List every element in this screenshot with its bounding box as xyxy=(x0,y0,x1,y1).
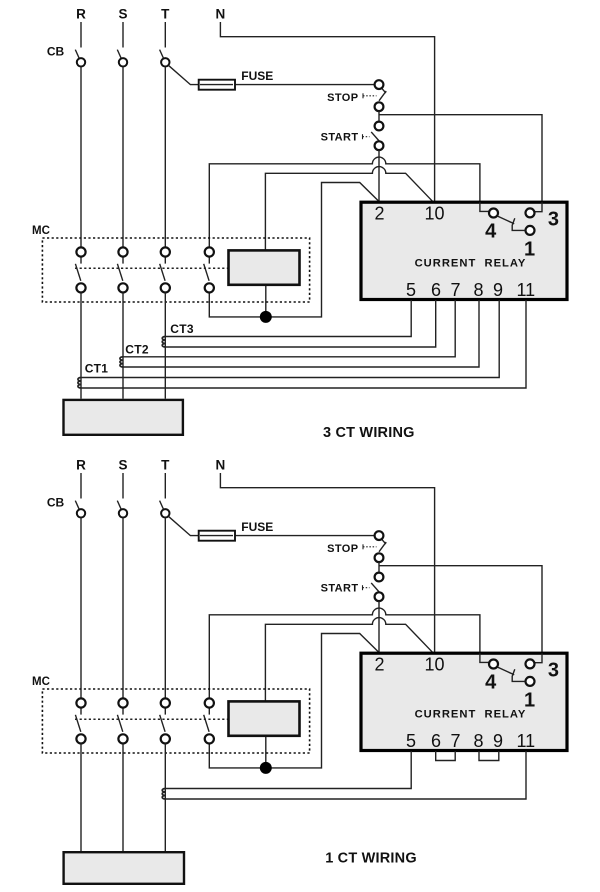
svg-text:R: R xyxy=(76,458,86,473)
wire coil to junction (bottom) xyxy=(265,736,267,768)
relay box CURRENT RELAY (bottom) xyxy=(361,653,567,750)
svg-text:5: 5 xyxy=(406,280,416,300)
relay contact 1 (top) xyxy=(526,226,535,235)
wire STOP to START (bottom) xyxy=(378,562,380,573)
breaker CB contact T (bottom) xyxy=(161,509,169,517)
breaker CB blade S (bottom) xyxy=(117,501,122,511)
svg-text:T: T xyxy=(161,7,170,22)
svg-text:4: 4 xyxy=(485,220,497,242)
svg-text:4: 4 xyxy=(485,671,497,693)
breaker CB blade R (bottom) xyxy=(75,501,80,511)
svg-text:9: 9 xyxy=(493,731,503,751)
coil MC (top) xyxy=(229,250,300,284)
svg-text:1 CT WIRING: 1 CT WIRING xyxy=(325,851,417,867)
current transformer CT3 (top) xyxy=(162,337,165,348)
relay contact 4 (bottom) xyxy=(489,660,498,669)
wire R MC to load (bottom) xyxy=(80,744,82,852)
breaker CB contact T (top) xyxy=(161,58,169,66)
svg-text:10: 10 xyxy=(424,654,444,674)
wire relay 8 to CT (top) xyxy=(123,300,479,367)
svg-text:11: 11 xyxy=(516,731,535,751)
relay contact 4 (top) xyxy=(489,209,498,218)
svg-text:MC: MC xyxy=(32,676,50,688)
breaker CB blade T (bottom) xyxy=(160,501,165,511)
coil MC (bottom) xyxy=(229,701,300,735)
breaker CB contact R (bottom) xyxy=(77,509,85,517)
wire N to relay 10 (bottom) xyxy=(220,473,434,653)
svg-text:3: 3 xyxy=(548,208,559,230)
breaker CB contact S (top) xyxy=(119,58,127,66)
svg-text:6: 6 xyxy=(431,280,441,300)
svg-text:9: 9 xyxy=(493,280,503,300)
svg-text:STOP: STOP xyxy=(327,543,358,555)
MC contact R (top) xyxy=(75,247,85,292)
wire coil to relay 10 (top) xyxy=(265,167,433,250)
wire S to MC (top) xyxy=(122,67,124,248)
pushbutton STOP (top) xyxy=(363,80,386,111)
wire MC aux to relay 4 (bottom) xyxy=(209,608,480,698)
pushbutton START (top) xyxy=(363,122,384,151)
MC contact S (top) xyxy=(117,247,127,292)
wire relay 9 to CT (top) xyxy=(81,300,499,378)
svg-text:CURRENT RELAY: CURRENT RELAY xyxy=(415,258,527,270)
fuse FUSE (top) xyxy=(199,80,235,90)
svg-text:START: START xyxy=(321,583,359,595)
svg-text:10: 10 xyxy=(424,203,444,223)
wire S upper lead (top) xyxy=(122,22,124,48)
wire R MC to load (top) xyxy=(80,293,82,399)
wire relay 4 connector (bottom) xyxy=(480,653,489,662)
svg-text:MC: MC xyxy=(32,225,50,237)
wire relay 6 to CT (top) xyxy=(165,300,435,347)
junction dot (bottom) xyxy=(260,762,272,774)
relay blade tick and elbow to 1 (bottom) xyxy=(512,669,525,681)
wire relay 5 to CT (bottom) xyxy=(165,751,411,789)
load box (top) xyxy=(64,400,183,435)
wire relay 3 connector (top) xyxy=(535,202,542,211)
wire relay 11 to CT (top) xyxy=(81,300,526,388)
relay contact 1 (bottom) xyxy=(526,677,535,686)
contactor MC dotted box (top) xyxy=(42,238,309,302)
fuse FUSE (bottom) xyxy=(199,531,235,541)
svg-text:CT3: CT3 xyxy=(170,322,194,336)
svg-text:2: 2 xyxy=(374,203,384,223)
relay contact 3 (bottom) xyxy=(526,659,535,668)
svg-text:3: 3 xyxy=(548,659,559,681)
wire R to MC (top) xyxy=(80,67,82,248)
svg-text:N: N xyxy=(216,7,226,22)
breaker CB blade S (top) xyxy=(117,50,122,60)
relay contact 3 (top) xyxy=(526,208,535,217)
svg-text:8: 8 xyxy=(473,280,483,300)
svg-text:3 CT WIRING: 3 CT WIRING xyxy=(323,425,415,441)
svg-text:5: 5 xyxy=(406,731,416,751)
wire S MC to load (bottom) xyxy=(122,744,124,852)
breaker CB blade T (top) xyxy=(160,50,165,60)
current transformer CT (bottom) xyxy=(162,789,165,800)
wire T to fuse (bottom) xyxy=(168,516,374,535)
pushbutton STOP (bottom) xyxy=(363,531,386,562)
svg-text:T: T xyxy=(161,458,170,473)
wire branch to relay 3 (top) xyxy=(379,115,542,203)
relay blade tick and elbow to 1 (top) xyxy=(512,218,525,230)
wire MC aux to relay 4 (top) xyxy=(209,157,480,247)
wire T to fuse (top) xyxy=(168,65,374,84)
load box (bottom) xyxy=(64,852,184,884)
wire relay 7 to CT (top) xyxy=(123,300,455,357)
wire S to MC (bottom) xyxy=(122,518,124,699)
wire S MC to load (top) xyxy=(122,293,124,399)
svg-text:STOP: STOP xyxy=(327,92,358,104)
breaker CB contact R (top) xyxy=(77,58,85,66)
MC linkage dashed (bottom) xyxy=(75,718,228,720)
wire junction to relay 2 (bottom) xyxy=(209,634,379,768)
svg-text:6: 6 xyxy=(431,731,441,751)
wire relay 3 connector (bottom) xyxy=(535,653,542,662)
svg-text:7: 7 xyxy=(450,280,460,300)
pushbutton START (bottom) xyxy=(363,573,384,602)
MC contact S (bottom) xyxy=(117,698,127,743)
svg-text:S: S xyxy=(118,458,127,473)
wire relay 5 to CT (top) xyxy=(165,300,411,337)
wire branch to relay 3 (bottom) xyxy=(379,566,542,654)
wire T MC to load (top) xyxy=(164,293,166,399)
wire T upper lead (top) xyxy=(164,22,166,48)
wire relay 11 to CT (bottom) xyxy=(165,751,526,799)
current transformer CT2 (top) xyxy=(120,357,123,367)
MC linkage dashed (top) xyxy=(75,267,228,269)
svg-text:7: 7 xyxy=(450,731,460,751)
relay box CURRENT RELAY (top) xyxy=(361,202,567,299)
wire relay 4 connector (top) xyxy=(480,202,489,211)
breaker CB contact S (bottom) xyxy=(119,509,127,517)
MC contact T (top) xyxy=(160,247,170,292)
wire N to relay 10 (top) xyxy=(220,22,434,202)
svg-text:CT1: CT1 xyxy=(85,362,109,376)
svg-text:FUSE: FUSE xyxy=(241,520,273,534)
current transformer CT1 (top) xyxy=(78,378,81,389)
relay blade 4-1 (top) xyxy=(497,216,514,224)
svg-text:START: START xyxy=(321,132,359,144)
svg-text:8: 8 xyxy=(473,731,483,751)
wire T upper lead (bottom) xyxy=(164,473,166,499)
MC contact T (bottom) xyxy=(160,698,170,743)
svg-text:2: 2 xyxy=(374,654,384,674)
MC contact aux (bottom) xyxy=(204,698,214,743)
svg-text:N: N xyxy=(216,458,226,473)
relay blade 4-1 (bottom) xyxy=(497,667,514,675)
wire T to MC (top) xyxy=(164,67,166,248)
wire R upper lead (bottom) xyxy=(80,473,82,499)
wire junction to relay 2 (top) xyxy=(209,183,379,317)
svg-text:CT2: CT2 xyxy=(125,342,149,356)
svg-text:CB: CB xyxy=(47,496,65,510)
wire R upper lead (top) xyxy=(80,22,82,48)
svg-text:FUSE: FUSE xyxy=(241,69,273,83)
wire START to relay 2 (bottom) xyxy=(378,601,380,653)
svg-text:R: R xyxy=(76,7,86,22)
contactor MC dotted box (bottom) xyxy=(42,689,309,753)
svg-text:11: 11 xyxy=(516,280,535,300)
svg-text:CB: CB xyxy=(47,45,65,59)
wire STOP to START (top) xyxy=(378,111,380,122)
wire START to relay 2 (top) xyxy=(378,150,380,202)
wire T to MC (bottom) xyxy=(164,518,166,699)
wire coil to relay 10 (bottom) xyxy=(265,618,433,701)
wire T MC to load (bottom) xyxy=(164,744,166,852)
wire coil to junction (top) xyxy=(265,285,267,317)
wire S upper lead (bottom) xyxy=(122,473,124,499)
MC contact aux (top) xyxy=(204,247,214,292)
wire R to MC (bottom) xyxy=(80,518,82,699)
svg-text:CURRENT RELAY: CURRENT RELAY xyxy=(415,709,527,721)
jumper 6-7 (bottom) xyxy=(436,751,456,761)
svg-text:S: S xyxy=(118,7,127,22)
junction dot (top) xyxy=(260,311,272,323)
MC contact R (bottom) xyxy=(75,698,85,743)
breaker CB blade R (top) xyxy=(75,50,80,60)
jumper 8-9 (bottom) xyxy=(479,751,499,761)
